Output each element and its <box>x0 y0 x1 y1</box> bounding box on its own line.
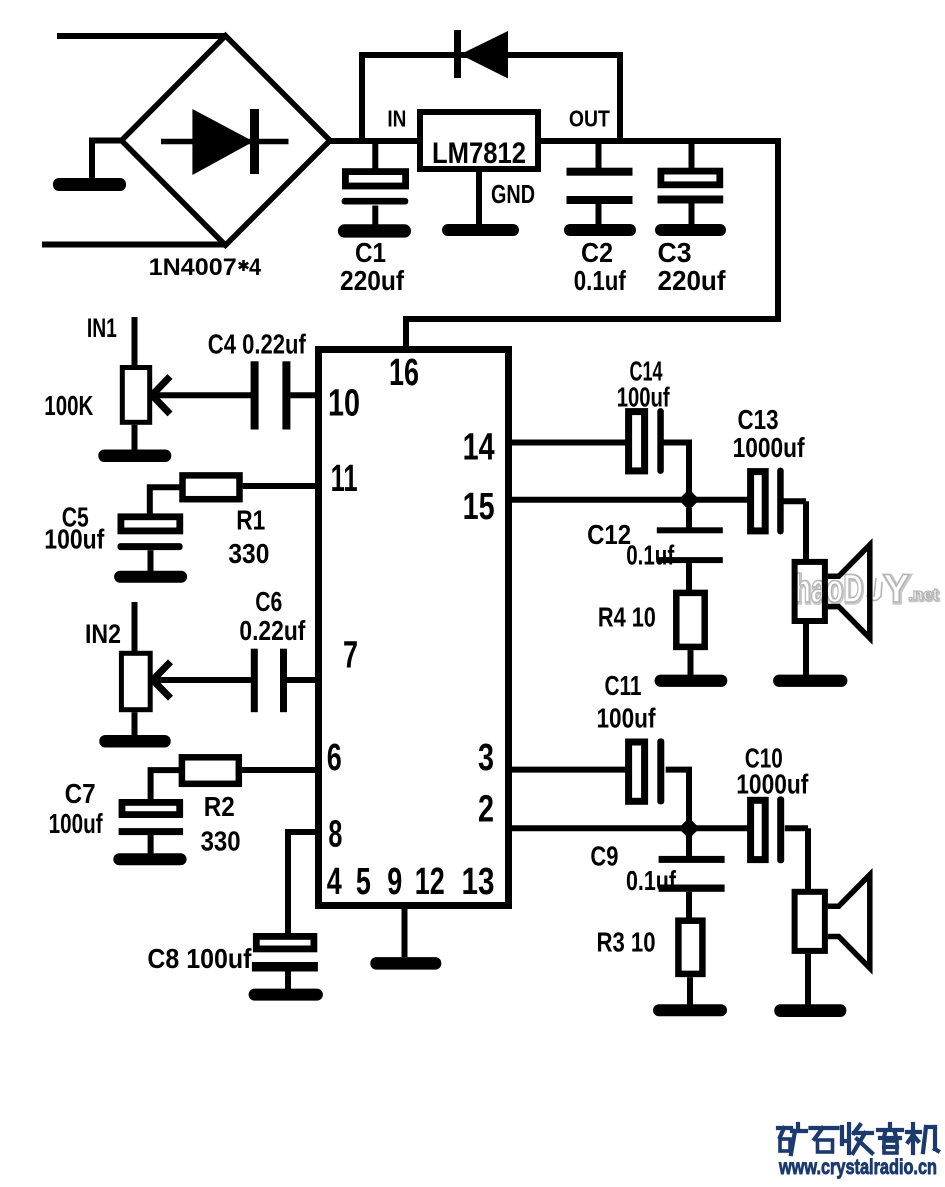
ground under IC <box>370 906 441 970</box>
svg-text:14: 14 <box>463 427 495 469</box>
svg-text:R3 10: R3 10 <box>597 926 656 957</box>
label C1 220uf <box>340 237 405 296</box>
svg-text:0.1uf: 0.1uf <box>626 865 677 896</box>
svg-text:100uf: 100uf <box>44 524 105 555</box>
wire from OUT rail to pin 16 <box>406 141 778 348</box>
capacitor C13 <box>751 468 806 535</box>
label C9 0.1uf <box>590 841 676 896</box>
svg-text:C2: C2 <box>581 237 613 268</box>
svg-text:4: 4 <box>327 861 342 903</box>
logo crystalradio <box>778 1124 938 1154</box>
potentiometer IN1 100K <box>98 317 171 462</box>
svg-text:R2: R2 <box>204 791 235 822</box>
wire AC left terminal <box>53 141 126 192</box>
svg-text:C13: C13 <box>738 404 779 435</box>
char shou <box>842 1124 872 1153</box>
capacitor C7 100uf <box>113 802 186 865</box>
wire C10 to speaker SP2 <box>805 828 811 890</box>
svg-text:220uf: 220uf <box>340 265 405 296</box>
wire C11 to node B <box>686 770 692 828</box>
svg-text:12: 12 <box>415 861 445 903</box>
resistor R1 330 <box>150 475 320 515</box>
char shi <box>811 1128 838 1152</box>
svg-text:10: 10 <box>328 383 360 425</box>
label 1N4007*4 <box>149 254 262 281</box>
char yin <box>878 1124 902 1153</box>
pins 4 5 9 12 13 <box>327 861 495 903</box>
label C7 100uf <box>49 778 103 839</box>
label R2 330 <box>201 791 241 856</box>
wire C14 to node A <box>686 443 692 501</box>
svg-text:100uf: 100uf <box>617 382 670 413</box>
svg-text:IN2: IN2 <box>85 619 121 649</box>
svg-text:0.22uf: 0.22uf <box>239 615 306 646</box>
svg-text:R1: R1 <box>236 505 265 536</box>
diode inside bridge <box>161 109 289 175</box>
svg-text:www.crystalradio.cn: www.crystalradio.cn <box>778 1155 937 1179</box>
watermark haoDIY.net <box>794 567 940 612</box>
resistor R3 10 <box>653 921 727 1017</box>
svg-text:7: 7 <box>343 634 358 676</box>
label R1 330 <box>228 505 269 569</box>
svg-text:1000uf: 1000uf <box>736 769 809 800</box>
svg-text:C11: C11 <box>605 670 642 701</box>
regulator U2 LM7812 <box>420 112 538 170</box>
capacitor C9 0.1uf <box>659 836 725 921</box>
label C14 100uf <box>617 356 670 413</box>
label C11 100uf <box>597 670 657 734</box>
svg-text:0.1uf: 0.1uf <box>626 539 674 570</box>
capacitor C3 220uf <box>655 141 726 236</box>
potentiometer IN2 <box>99 602 170 748</box>
wire AC input bottom lead <box>42 242 226 248</box>
label C12 0.1uf <box>587 519 675 570</box>
IC U1 16-pin box <box>319 350 509 906</box>
wire pin 15 to C13 <box>505 497 748 503</box>
svg-text:16: 16 <box>389 352 419 394</box>
node B junction <box>679 818 700 839</box>
ground GND of LM7812 <box>442 169 519 236</box>
svg-text:6: 6 <box>327 737 342 779</box>
wire C13 to speaker SP1 <box>803 501 809 560</box>
capacitor C14 <box>505 408 692 474</box>
svg-text:GND: GND <box>491 179 535 209</box>
speaker SP1 <box>773 545 870 687</box>
svg-text:C12: C12 <box>587 519 631 550</box>
label C5 100uf <box>44 501 105 554</box>
capacitor C11 <box>505 738 692 804</box>
svg-text:100uf: 100uf <box>597 703 657 734</box>
svg-text:11: 11 <box>331 458 358 500</box>
label C3 220uf <box>658 237 727 296</box>
resistor R2 330 <box>151 757 320 800</box>
svg-text:330: 330 <box>228 538 269 569</box>
svg-text:IN: IN <box>387 105 406 131</box>
char ji <box>907 1124 938 1153</box>
svg-text:5: 5 <box>356 861 371 903</box>
svg-text:Y: Y <box>883 567 910 611</box>
svg-text:1N4007: 1N4007 <box>149 254 237 281</box>
svg-text:100uf: 100uf <box>49 808 103 839</box>
svg-text:2: 2 <box>478 789 494 831</box>
svg-text:OUT: OUT <box>569 105 610 131</box>
capacitor C2 0.1uf <box>564 141 636 236</box>
svg-text:C7: C7 <box>65 778 96 809</box>
svg-text:C3: C3 <box>658 237 692 268</box>
capacitor C5 100uf <box>114 517 187 583</box>
svg-text:1000uf: 1000uf <box>733 432 806 463</box>
svg-text:C1: C1 <box>355 237 386 268</box>
svg-text:C6: C6 <box>255 586 282 617</box>
speaker SP2 <box>774 875 870 1017</box>
svg-text:C8 100uf: C8 100uf <box>147 943 252 974</box>
label C13 1000uf <box>733 404 806 463</box>
resistor R4 10 <box>655 593 728 687</box>
svg-text:3: 3 <box>478 737 494 779</box>
svg-text:220uf: 220uf <box>658 265 727 296</box>
svg-text:330: 330 <box>201 826 241 857</box>
capacitor C4 <box>154 361 320 429</box>
capacitor C12 0.1uf <box>657 508 723 591</box>
svg-text:C9: C9 <box>590 841 618 872</box>
wire AC input top lead <box>57 33 226 39</box>
bridge rectifier 1N4007*4 diamond <box>122 36 331 246</box>
char kuang <box>778 1124 806 1154</box>
label C2 0.1uf <box>574 237 627 296</box>
svg-text:8: 8 <box>328 813 342 855</box>
wire pin 8 to C8 <box>288 832 320 934</box>
capacitor C6 <box>155 649 320 713</box>
svg-text:R4 10: R4 10 <box>598 602 656 633</box>
svg-text:LM7812: LM7812 <box>432 137 526 170</box>
capacitor C8 100uf <box>249 936 323 1000</box>
svg-text:0.1uf: 0.1uf <box>574 265 627 296</box>
capacitor C10 <box>751 796 808 863</box>
svg-text:4: 4 <box>249 254 262 281</box>
svg-text:9: 9 <box>387 861 402 903</box>
label C10 1000uf <box>736 743 809 800</box>
node A junction <box>679 489 700 510</box>
svg-text:IN1: IN1 <box>87 313 117 343</box>
svg-text:C4 0.22uf: C4 0.22uf <box>208 328 307 359</box>
svg-text:13: 13 <box>462 861 495 903</box>
capacitor C1 220uf <box>338 141 411 238</box>
wire main positive rail <box>328 138 781 144</box>
wire pin 2 to C10 <box>505 825 750 831</box>
svg-text:.net: .net <box>908 585 939 604</box>
svg-text:100K: 100K <box>44 390 93 421</box>
diode D5 bypass loop <box>362 30 620 141</box>
svg-text:15: 15 <box>463 486 495 528</box>
